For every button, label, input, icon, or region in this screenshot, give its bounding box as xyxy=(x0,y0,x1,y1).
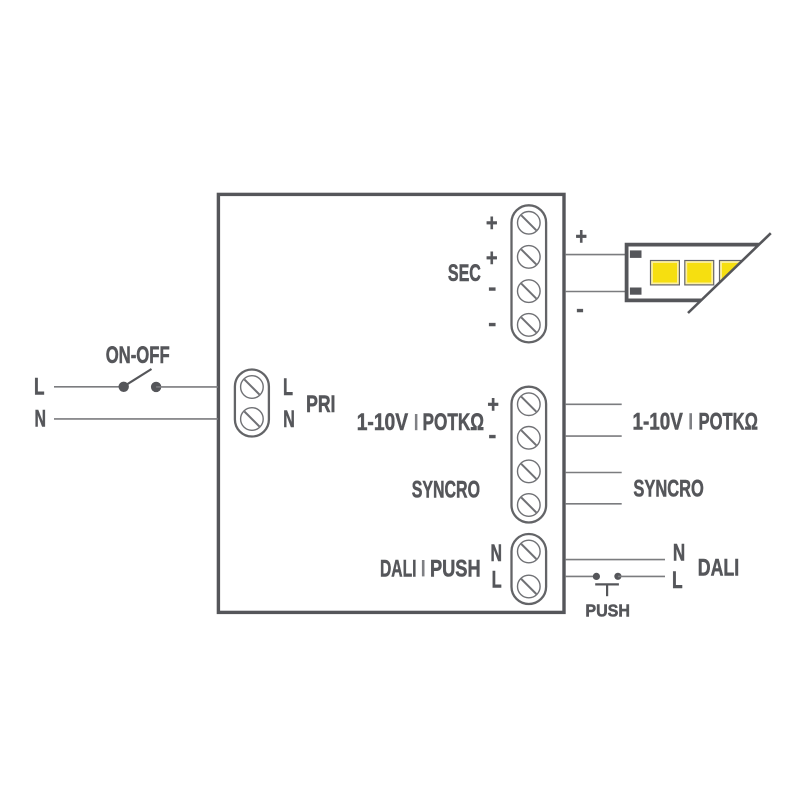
LED chip 3 (cut) xyxy=(720,261,749,285)
wire SEC - to LED strip xyxy=(566,291,627,293)
svg-text:POTKΩ: POTKΩ xyxy=(423,409,485,436)
svg-text:L: L xyxy=(672,567,683,594)
label 1-10V | POTKohm (right) xyxy=(633,408,758,435)
wire 1-10V - xyxy=(566,435,622,437)
cut line (strip continues) xyxy=(688,233,771,313)
svg-text:L: L xyxy=(34,374,45,401)
svg-text:SYNCRO: SYNCRO xyxy=(412,476,480,503)
LED strip body xyxy=(627,245,759,301)
svg-text:L: L xyxy=(283,374,293,401)
svg-text:1-10V: 1-10V xyxy=(357,409,408,436)
svg-text:DALI: DALI xyxy=(698,555,739,582)
driver box outline xyxy=(218,194,564,612)
LED strip solder pad bottom xyxy=(630,288,642,295)
svg-text:ON-OFF: ON-OFF xyxy=(106,342,170,369)
svg-text:1-10V: 1-10V xyxy=(633,408,683,435)
wire DALI L right segment xyxy=(618,575,665,577)
terminal block PRI xyxy=(235,370,269,437)
wire L to box xyxy=(156,386,218,388)
wire N to box xyxy=(54,418,218,420)
svg-text:N: N xyxy=(673,540,685,567)
LED chip 1 xyxy=(651,261,680,285)
LED chip 2 xyxy=(685,261,714,285)
svg-text:+: + xyxy=(487,392,499,419)
wire SYNCRO a xyxy=(566,472,622,474)
svg-text:SYNCRO: SYNCRO xyxy=(633,476,703,503)
svg-text:N: N xyxy=(491,540,503,567)
wire L left segment xyxy=(54,386,124,388)
push button contacts xyxy=(593,573,622,597)
wire DALI N xyxy=(566,559,665,561)
label 1-10V | POTKohm (left) xyxy=(357,409,484,436)
switch SW1 ON-OFF xyxy=(119,369,162,392)
svg-text:-: - xyxy=(576,296,584,323)
svg-text:PRI: PRI xyxy=(306,391,335,418)
svg-text:+: + xyxy=(486,245,498,272)
svg-text:-: - xyxy=(488,275,496,302)
svg-text:-: - xyxy=(489,422,497,449)
wire SEC + to LED strip xyxy=(566,254,627,256)
svg-text:+: + xyxy=(486,210,498,237)
svg-text:PUSH: PUSH xyxy=(585,601,630,621)
svg-text:POTKΩ: POTKΩ xyxy=(699,408,758,435)
svg-text:+: + xyxy=(575,223,587,250)
svg-text:DALI: DALI xyxy=(380,555,417,582)
svg-text:N: N xyxy=(35,406,47,433)
terminal block SEC xyxy=(512,205,547,342)
wire DALI L (to push contact) xyxy=(566,575,597,577)
svg-text:L: L xyxy=(492,567,502,594)
wire 1-10V + xyxy=(566,403,622,405)
label DALI | PUSH xyxy=(380,555,481,582)
svg-text:SEC: SEC xyxy=(448,260,481,287)
LED strip solder pad top xyxy=(630,250,642,258)
svg-text:N: N xyxy=(283,406,295,433)
terminal block 1-10V/SYNCRO xyxy=(512,387,547,523)
terminal block DALI/PUSH xyxy=(512,534,547,604)
svg-text:PUSH: PUSH xyxy=(430,555,481,582)
wire SYNCRO b xyxy=(566,503,622,505)
svg-text:-: - xyxy=(488,310,496,337)
